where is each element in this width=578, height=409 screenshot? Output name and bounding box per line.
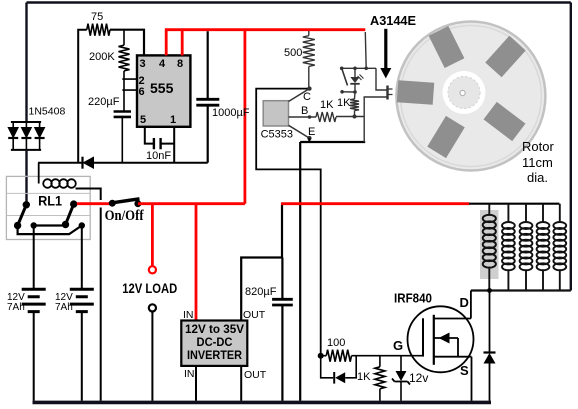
svg-text:OUT: OUT (244, 369, 267, 381)
wire 75 resistor to pin3 (110, 30, 144, 56)
svg-text:10nF: 10nF (146, 150, 171, 162)
wire battery1 bottom to ground rail (33, 312, 35, 401)
inductor coil L5 (559, 204, 561, 223)
transistor C5353 emitter lead (289, 125, 310, 138)
transistor C5353 collector lead (289, 89, 310, 102)
node C (307, 86, 311, 90)
svg-text:1K: 1K (337, 97, 351, 109)
inductor relay coil (43, 179, 76, 188)
svg-text:Rotor: Rotor (522, 139, 554, 154)
resistor 1K base (316, 112, 336, 122)
svg-text:IRF840: IRF840 (394, 292, 432, 306)
wire collector node left and down to gate feed (256, 89, 321, 356)
arrow A3144E pointer (384, 29, 387, 70)
wire red drop to load terminal (151, 204, 154, 267)
node E (307, 136, 311, 140)
node battery2 contact (79, 222, 85, 228)
switch On/Off (109, 199, 141, 207)
switch internal (hall) (340, 67, 344, 71)
inductor coil L1 (488, 204, 490, 216)
svg-text:dia.: dia. (527, 170, 548, 185)
node B junction (308, 115, 312, 119)
wire 10nF to pin1 and down to rail (161, 127, 175, 163)
wire coil1 column down to diode (489, 291, 491, 353)
capacitor 10nF (154, 138, 161, 149)
wire red On/Off to junction (138, 202, 245, 205)
wire red from relay to On/Off (77, 202, 112, 205)
diode on lower rail (cathode left) (81, 157, 83, 169)
wire 820uF bottom to ground rail (281, 305, 283, 401)
capacitor 1000uF (196, 99, 219, 105)
svg-text:1K: 1K (357, 371, 371, 383)
wire battery1 top (33, 226, 35, 289)
hall sensor A3144E symbol (376, 68, 387, 90)
op-amp U1 555 timer body (137, 55, 190, 126)
wire switch1 contact to battery2 contact (18, 226, 82, 235)
svg-text:G: G (393, 338, 403, 353)
wire red end to hall supply (364, 32, 367, 68)
svg-text:B: B (301, 105, 308, 117)
wire hall top rail (342, 67, 376, 69)
svg-text:INVERTER: INVERTER (187, 350, 243, 362)
svg-text:1000µF: 1000µF (212, 107, 250, 119)
wire battery2 bottom to ground rail (81, 312, 83, 401)
svg-text:100: 100 (327, 337, 345, 349)
svg-text:200K: 200K (89, 51, 115, 63)
wire coil left end up to lower rail (38, 163, 40, 184)
resistor 500 (308, 31, 310, 36)
transistor Q2 IRF840 MOSFET (408, 306, 474, 372)
wire black continuation of rail to coil5 (469, 203, 559, 205)
diode gate discharge (cathode left) (321, 356, 334, 378)
wire 1N5408 to relay pole (25, 150, 27, 205)
diode drain clamp (cathode up) (484, 351, 496, 353)
wire drain to coils rail (470, 291, 472, 319)
wire coil right end down to ground rail (76, 189, 101, 401)
wire left rail from top border to 1N5408 (25, 3, 27, 123)
svg-text:On/Off: On/Off (105, 208, 144, 224)
wire right border rail (570, 3, 572, 291)
svg-text:12V LOAD: 12V LOAD (122, 281, 177, 296)
node coils junction (487, 288, 492, 293)
svg-text:S: S (460, 363, 469, 378)
svg-text:500: 500 (284, 47, 302, 59)
wire source to ground rail (471, 357, 473, 401)
resistor 75 (87, 24, 110, 36)
battery B2 12V 7Ah (70, 289, 94, 311)
wire junction to 200K top (123, 30, 125, 46)
svg-text:7Ah: 7Ah (55, 302, 73, 313)
svg-text:555: 555 (150, 80, 174, 96)
svg-text:OUT: OUT (243, 309, 266, 321)
wire 1000uF bottom to rail (207, 105, 209, 163)
svg-text:D: D (460, 295, 469, 310)
wire gate line (352, 355, 424, 357)
node base junction (353, 115, 357, 119)
svg-text:6: 6 (139, 86, 145, 98)
wire ground bottom rail (33, 401, 492, 405)
svg-text:E: E (308, 126, 315, 138)
svg-text:11cm: 11cm (522, 155, 553, 170)
wire battery2 top (81, 226, 83, 289)
capacitor 820uF (272, 299, 293, 305)
wire red drop to inverter IN (195, 204, 198, 321)
wire red vertical to load rail (243, 30, 246, 204)
capacitor 220uF (114, 112, 131, 117)
wire 75-resistor left branch (78, 30, 87, 163)
wire 200K bottom to 220uF, pins 2,6 taps (122, 71, 137, 111)
svg-text:RL1: RL1 (38, 194, 62, 209)
wire battery1 tap to switch2 contact (34, 224, 66, 226)
LED indicator (353, 67, 357, 71)
resistor 1K gate (379, 356, 381, 367)
wire lower rail (38, 162, 208, 164)
wire emitter to ground drop (300, 138, 365, 401)
inductor coil L3 (525, 204, 527, 223)
rotor hub (443, 71, 486, 114)
wire red +12V rail pin4 pin8 (166, 30, 365, 204)
wire hall output down to emitter wire (363, 117, 365, 143)
wire load negative to ground rail (151, 312, 153, 401)
wire inverter IN bottom to ground rail (195, 366, 197, 401)
wire 220uF bottom to lower rail (121, 117, 123, 163)
svg-text:1N5408: 1N5408 (29, 106, 66, 118)
wire 500 bottom to collector node (308, 66, 310, 88)
svg-text:IN: IN (183, 309, 194, 321)
svg-text:C: C (303, 91, 311, 103)
svg-text:IN: IN (184, 368, 195, 380)
wire top border rail (27, 1, 571, 4)
transistor C5353 base lead (289, 116, 317, 118)
terminal 12V LOAD positive (149, 266, 156, 273)
rotor magnets (397, 26, 526, 158)
inductor coil L2 (507, 204, 509, 223)
wire 1000uF top to red rail (207, 31, 209, 98)
wire junction down to inverter OUT (241, 204, 282, 321)
svg-text:220µF: 220µF (88, 96, 120, 108)
relay switch 2 (right pole) (62, 201, 77, 228)
svg-text:3: 3 (140, 58, 146, 70)
wire red rail to coils (281, 202, 469, 205)
svg-text:8: 8 (177, 58, 183, 70)
wire pin5 to 10nF (145, 127, 154, 144)
zener diode 12v (400, 356, 402, 371)
resistor 200K (119, 45, 130, 71)
svg-text:7Ah: 7Ah (7, 302, 25, 313)
svg-text:DC-DC: DC-DC (197, 337, 233, 349)
svg-text:A3144E: A3144E (370, 13, 416, 28)
svg-text:1K: 1K (320, 99, 334, 111)
module 12V to 35V DC-DC inverter (181, 321, 247, 366)
terminal 12V LOAD negative (149, 304, 156, 311)
wire inverter OUT bottom to ground rail (240, 366, 242, 401)
transistor Q1 C5353 body (263, 101, 288, 126)
diode block 1N5408 (three parallel diodes) (8, 122, 44, 150)
wire 820uF drop (281, 258, 283, 299)
relay switch 1 (left pole) (14, 202, 29, 229)
battery B1 12V 7Ah (22, 289, 46, 311)
relay RL1 box (6, 176, 90, 239)
coil highlight stripe (480, 210, 499, 279)
svg-text:C5353: C5353 (261, 129, 293, 141)
node battery1 tap (31, 222, 37, 228)
svg-text:820µF: 820µF (245, 286, 277, 298)
svg-text:1: 1 (170, 114, 176, 126)
svg-text:75: 75 (91, 11, 103, 23)
inductor coil L4 (542, 204, 544, 223)
resistor 1K hall pulldown (354, 92, 357, 99)
wire base resistor to hall output (336, 116, 364, 118)
wire coils bottom rail (471, 289, 571, 291)
svg-text:5: 5 (140, 114, 146, 126)
svg-text:4: 4 (159, 58, 166, 70)
svg-text:12v: 12v (409, 371, 428, 385)
resistor 100 (321, 355, 327, 357)
rotor disc (396, 22, 545, 171)
node gate feed (318, 353, 324, 359)
svg-text:12V to 35V: 12V to 35V (185, 324, 244, 336)
